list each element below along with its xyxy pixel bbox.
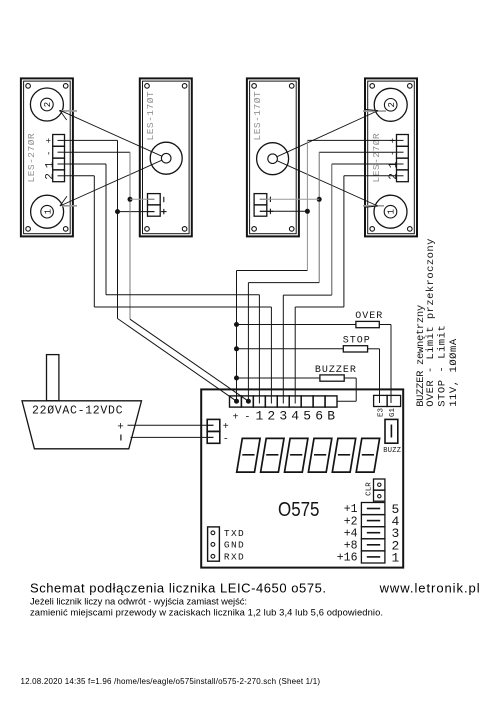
wire A+ vertical [117, 140, 119, 318]
svg-text:STOP: STOP [343, 336, 371, 347]
svg-text:LES-17ØT: LES-17ØT [252, 91, 263, 141]
terminal X1 label 4 [291, 408, 299, 423]
module B pin label - [163, 197, 165, 202]
note line 1 [30, 596, 247, 607]
module A label LES-270R [26, 133, 37, 183]
website [379, 580, 480, 595]
node + tap STOP [234, 346, 343, 351]
wire OVER to G1 [379, 325, 391, 396]
wire A+ horizontal [65, 139, 118, 141]
svg-text:5: 5 [303, 408, 311, 423]
svg-text:G1: G1 [389, 407, 397, 417]
wire A2 vertical [93, 176, 95, 307]
svg-text:1: 1 [44, 161, 56, 168]
wire A2 to strip 2 [94, 307, 271, 404]
svg-text:O575: O575 [278, 499, 320, 521]
module B LES-170T mounting holes [145, 84, 187, 232]
svg-text:+8: +8 [344, 540, 358, 553]
wire D+ horizontal [307, 139, 396, 141]
module A photocell 2 [30, 88, 63, 121]
title [30, 580, 326, 595]
terminal strip X1 [230, 396, 338, 407]
svg-text:4: 4 [291, 408, 299, 423]
terminal X1 label 1 [255, 408, 263, 423]
svg-text:OVER: OVER [355, 311, 383, 322]
PS1 terminal - [120, 435, 122, 441]
board name O575 [278, 499, 320, 521]
JP1 pin number 1 [392, 550, 400, 565]
power input header X2 [207, 419, 220, 443]
module C pin stubs [260, 199, 267, 211]
label RXD [224, 551, 245, 562]
terminal X1 label 2 [267, 408, 275, 423]
svg-text:+4: +4 [344, 527, 358, 540]
svg-text:+: + [45, 138, 55, 143]
wire BUZZER to strip B [337, 378, 356, 401]
module C label LES-170T [252, 91, 263, 141]
module D pin label + [388, 138, 398, 143]
svg-text:GND: GND [224, 540, 245, 551]
node strip - [246, 399, 251, 404]
module A lens slot 1 [62, 205, 77, 207]
svg-text:2: 2 [388, 173, 400, 180]
PS1 mains plug [47, 355, 59, 401]
module D pin label 2 [388, 173, 400, 180]
module D pin header [397, 135, 409, 182]
module C power header [254, 194, 267, 217]
svg-text:12.08.2020 14:35 f=1.96 /hom: 12.08.2020 14:35 f=1.96 /home/les/eagle/… [21, 677, 321, 686]
module D label LES-270R [371, 133, 382, 183]
module B pin label + [161, 209, 166, 214]
footer [21, 677, 321, 686]
label STOP [343, 336, 371, 347]
JP1 label +16 [337, 552, 358, 565]
load R2 STOP [343, 346, 367, 352]
module A LES-270R outline [21, 78, 73, 236]
module A pin stubs [58, 140, 65, 175]
JP1 pin number 4 [392, 514, 400, 529]
terminal X1 label 3 [279, 408, 287, 423]
JP1 pin number 2 [392, 538, 400, 553]
svg-text:-: - [388, 151, 398, 156]
beam module D cell 1 to module C [277, 161, 378, 208]
svg-text:+: + [223, 422, 229, 433]
wire D1 vertical [331, 164, 333, 295]
wire A1 to strip 1 [106, 295, 259, 404]
svg-text:zamienić miejscami przewody w: zamienić miejscami przewody w zaciskach … [30, 606, 383, 617]
module D photocell 2 [374, 88, 407, 121]
module C LES-170T outline [247, 78, 299, 236]
wire STOP to E3 [368, 349, 380, 396]
module D pin label - [388, 151, 398, 156]
svg-text:RXD: RXD [224, 551, 245, 562]
jumper CLR [374, 479, 385, 501]
svg-text:1: 1 [392, 550, 400, 565]
label TXD [224, 528, 245, 539]
svg-text:-: - [223, 435, 229, 446]
wire D1 horizontal [332, 163, 397, 165]
module B LES-170T outline [140, 78, 192, 236]
svg-text:CLR: CLR [366, 482, 374, 496]
wire PSU - to board [131, 436, 214, 438]
module B pin stubs [148, 199, 155, 211]
X2 label - [223, 435, 229, 446]
svg-text:+2: +2 [344, 515, 358, 528]
terminal X1 label + [232, 412, 238, 423]
X2 label + [223, 422, 229, 433]
svg-text:LES-17ØT: LES-17ØT [145, 91, 156, 141]
PS1 label 220VAC-12VDC [32, 404, 123, 417]
module B power header [148, 194, 161, 217]
wire PSU + to board [128, 424, 214, 426]
module D LES-270R outline [365, 78, 417, 236]
X2 pin stubs [207, 425, 213, 437]
node A+ tap to B+ [115, 209, 155, 214]
wire A1 vertical [105, 164, 107, 295]
module D lens slot 1 [363, 205, 384, 207]
node strip + [234, 399, 239, 404]
power supply PS1 body [22, 401, 142, 449]
svg-text:B: B [327, 408, 335, 423]
wire D+ vertical [306, 140, 308, 270]
wire A- vertical [129, 152, 131, 319]
module D LES-270R mounting holes [370, 84, 412, 232]
wire D2 vertical [343, 176, 345, 307]
label CLR [366, 482, 374, 496]
label G1 [389, 407, 397, 417]
svg-text:TXD: TXD [224, 528, 245, 539]
svg-text:1: 1 [387, 209, 397, 214]
pin E3 [379, 395, 381, 403]
terminal X1 label B [327, 408, 335, 423]
svg-text:BUZZ: BUZZ [383, 447, 401, 455]
module A pin label - [44, 151, 54, 156]
module A LES-270R mounting holes [26, 84, 68, 232]
svg-text:1: 1 [43, 209, 53, 214]
module C pin label + [268, 209, 273, 214]
node D- tap to C- [260, 197, 322, 202]
svg-text:LES-27ØR: LES-27ØR [26, 133, 37, 183]
module D lens slot 2 [363, 110, 386, 112]
module A pin label 1 [44, 161, 56, 168]
pin G1 [390, 395, 392, 403]
load R1 OVER [356, 321, 379, 327]
JP1 pin number 5 [392, 502, 400, 517]
JP1 label +8 [344, 540, 358, 553]
svg-text:2: 2 [387, 102, 397, 107]
note STOP - Limit [437, 325, 449, 407]
wire + to strip jog [237, 271, 308, 402]
note OVER - Limit przekroczony [425, 239, 437, 407]
label OVER [355, 311, 383, 322]
label BUZZER [315, 365, 357, 376]
beam module A cell 1 to module B [60, 160, 162, 206]
JP1 label +1 [344, 503, 358, 516]
svg-text:+: + [117, 421, 124, 433]
node D+ tap to C+ [260, 209, 310, 214]
svg-text:STOP - Limit: STOP - Limit [437, 325, 449, 407]
module C emitter lens [257, 143, 289, 175]
wire A1 horizontal [65, 163, 107, 165]
module D photocell 1 [374, 195, 407, 228]
buzzer BUZZ [385, 419, 398, 443]
svg-text:www.letronik.pl: www.letronik.pl [379, 580, 480, 595]
wire D2 to strip 4 [295, 307, 344, 404]
svg-text:E3: E3 [378, 407, 386, 417]
module C pin label - [269, 197, 271, 202]
beam module D cell 2 to module C [277, 110, 378, 157]
JP1 label +4 [344, 527, 358, 540]
wire D- vertical [318, 152, 320, 282]
PS1 terminal + [117, 421, 124, 433]
beam module A cell 2 to module B [60, 110, 162, 156]
module B label LES-170T [145, 91, 156, 141]
JP1 label +2 [344, 515, 358, 528]
wire A2 horizontal [65, 175, 95, 177]
node + tap BUZZER [234, 376, 320, 381]
wire - to strip jog [248, 283, 319, 402]
load R3 BUZZER [320, 375, 344, 381]
module A photocell 1 [31, 195, 64, 228]
label E3 [378, 407, 386, 417]
wire D2 horizontal [344, 175, 397, 177]
wire A- horizontal [65, 151, 131, 153]
wire D1 to strip 3 [283, 295, 332, 403]
svg-text:6: 6 [315, 408, 323, 423]
svg-text:+16: +16 [337, 552, 358, 565]
node A- tap to B- [128, 197, 155, 202]
module A pin label 2 [44, 173, 56, 180]
module B emitter lens [150, 142, 182, 174]
module A pin header [53, 135, 65, 182]
jumper block JP1 divide select [361, 503, 385, 564]
module D pin stubs [397, 140, 404, 175]
module C LES-170T mounting holes [252, 84, 294, 232]
terminal X1 label 6 [315, 408, 323, 423]
svg-text:2: 2 [43, 102, 53, 107]
JP1 pin number 3 [392, 526, 400, 541]
note line 2 [30, 606, 383, 617]
svg-text:BUZZER: BUZZER [315, 365, 357, 376]
header JP2 buzzer output [374, 395, 401, 406]
label BUZZ [383, 447, 401, 455]
display DIS1 7-segment digits [237, 438, 380, 472]
terminal X1 label - [244, 412, 250, 423]
svg-text:-: - [44, 151, 54, 156]
svg-text:OVER - Limit przekroczony: OVER - Limit przekroczony [425, 239, 437, 407]
svg-text:+1: +1 [344, 503, 358, 516]
svg-text:2: 2 [44, 173, 56, 180]
svg-text:Jeżeli licznik liczy na odwrót: Jeżeli licznik liczy na odwrót - wyjścia… [30, 596, 247, 607]
svg-text:3: 3 [279, 408, 287, 423]
terminal X1 label 5 [303, 408, 311, 423]
wire D- horizontal [319, 151, 396, 153]
svg-text:1: 1 [388, 161, 400, 168]
svg-text:Schemat podłączenia licznika L: Schemat podłączenia licznika LEIC-4650 o… [30, 580, 326, 595]
wire A+ diagonal to strip + [118, 319, 237, 402]
serial header SV1 [208, 527, 220, 561]
note BUZZER zewnetrzny [415, 305, 427, 407]
svg-text:22ØVAC-12VDC: 22ØVAC-12VDC [32, 404, 123, 417]
module D pin label 1 [388, 161, 400, 168]
label GND [224, 540, 245, 551]
wire A- diagonal to strip - [130, 319, 248, 401]
module A pin label + [45, 138, 55, 143]
module A lens slot 2 [59, 110, 77, 112]
board U1 O575 outline [201, 389, 403, 567]
svg-text:11V, 1ØØmA: 11V, 1ØØmA [448, 338, 460, 407]
note 11V 100mA [448, 338, 460, 407]
node + tap OVER [234, 322, 356, 327]
svg-text:+: + [232, 412, 238, 423]
svg-text:2: 2 [267, 408, 275, 423]
svg-text:-: - [244, 412, 250, 423]
svg-text:1: 1 [255, 408, 263, 423]
